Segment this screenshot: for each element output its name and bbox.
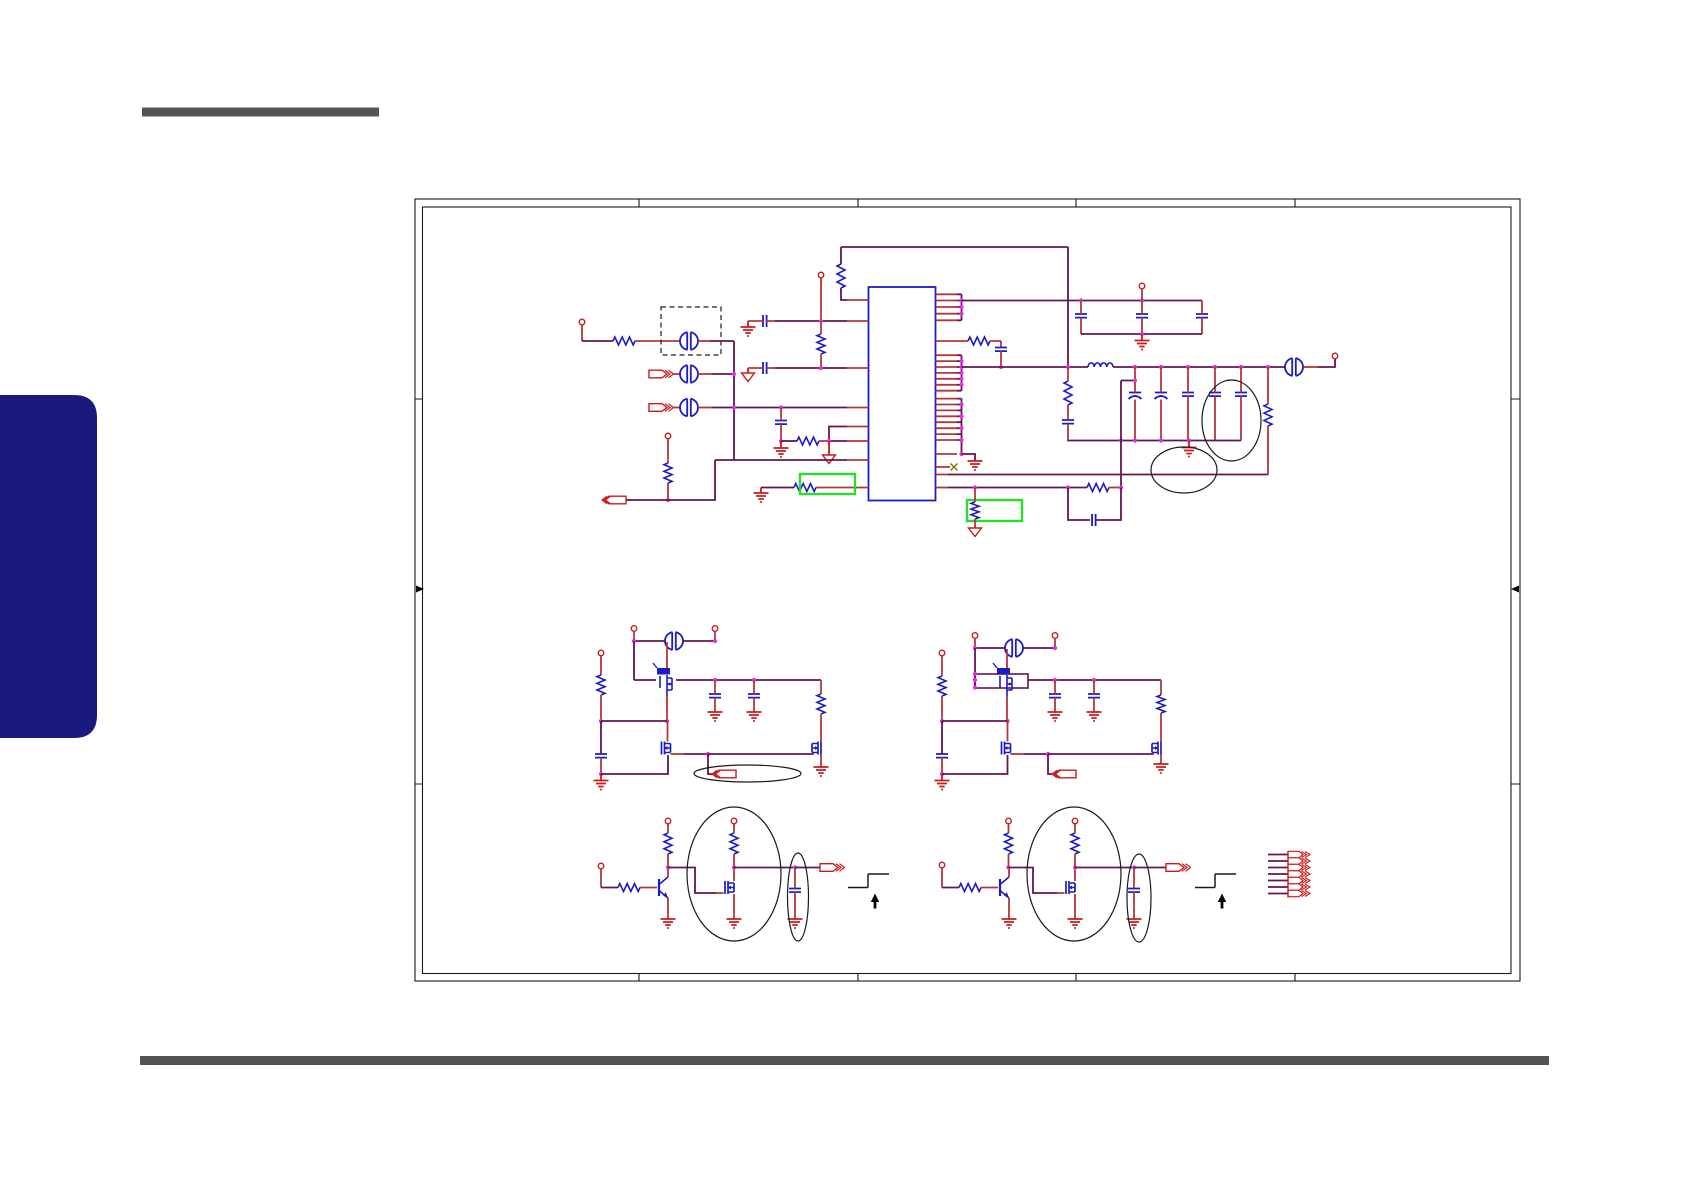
- junction 634-641: [632, 639, 636, 643]
- terminal B2b: [1052, 633, 1058, 639]
- junction 1068-487: [1066, 485, 1070, 489]
- wire net y474: [948, 474, 1268, 476]
- wire B2a drop: [974, 638, 976, 648]
- side tab: [0, 395, 97, 738]
- wire Q1 drain: [666, 642, 668, 668]
- wire R21 leads: [1074, 824, 1076, 868]
- wire D1 base b: [640, 887, 657, 889]
- capacitor C4: [1075, 314, 1087, 318]
- wire D1 gate link: [668, 868, 716, 894]
- wire B1 top b: [684, 640, 716, 642]
- wire net y487: [948, 487, 1087, 489]
- capacitor C22: [1128, 889, 1140, 893]
- wire B1 right: [820, 680, 822, 694]
- pin stub y467: [936, 466, 951, 468]
- wire Q6 gate: [1152, 753, 1154, 755]
- wire C22 lead: [1133, 892, 1135, 919]
- ellipse mark E6: [1202, 380, 1261, 461]
- junction 667-721: [665, 719, 669, 723]
- wire Q3 source: [820, 755, 822, 768]
- wire Q5 out: [1011, 753, 1025, 755]
- capacitor C2: [763, 362, 767, 374]
- wire Q9 emitter: [1008, 898, 1010, 919]
- wire B2 right: [1160, 680, 1162, 695]
- ellipse mark E4: [1027, 807, 1121, 941]
- wire D2 out: [1075, 867, 1134, 869]
- U1 right pin group2 bus: [957, 355, 962, 391]
- connector SW2: [1054, 770, 1076, 778]
- connector stack chevrons: [1302, 852, 1311, 897]
- wire C9 leads: [1160, 367, 1162, 441]
- wire cap bottom row: [1081, 333, 1202, 335]
- ground G17: [788, 919, 803, 928]
- resistor R2: [817, 334, 825, 354]
- wire B2 top b: [1024, 647, 1056, 649]
- terminal VDD: [1139, 283, 1145, 289]
- resistor R14: [938, 676, 946, 696]
- junction 781-407: [779, 405, 783, 409]
- connector SW1: [714, 770, 736, 778]
- resistor R15: [1157, 695, 1165, 713]
- wire B1a drop: [633, 631, 635, 641]
- U1 right pin group3 bus: [957, 399, 962, 454]
- wire Q8 drain: [733, 868, 735, 882]
- wire vert x734: [733, 341, 735, 460]
- U1 right pin group1 bus: [957, 294, 962, 320]
- footer bar: [140, 1056, 1549, 1065]
- resistor R13: [817, 694, 825, 714]
- ground G10: [814, 767, 829, 776]
- wire cap bottom row2: [1067, 440, 1241, 442]
- U1 right pin group2 stubs: [936, 355, 958, 391]
- wire B2 bottom: [942, 755, 1008, 774]
- junction 1075-867: [1073, 865, 1077, 869]
- mosfet Q10: [1066, 881, 1069, 894]
- junction 1008-867: [1006, 865, 1010, 869]
- wire D2a drop: [941, 868, 943, 888]
- power arrow P1: [742, 373, 755, 382]
- junction 1081-300: [1079, 298, 1083, 302]
- junction 781-441: [779, 439, 783, 443]
- wire gnd pin: [962, 454, 976, 461]
- transistor Q9: [999, 879, 1001, 896]
- wire row1 a: [582, 340, 613, 342]
- wire R7 out: [990, 341, 1001, 347]
- U1 right pin group3 stubs: [936, 399, 958, 440]
- terminal B1a: [631, 626, 637, 632]
- wire C19 leads: [1054, 680, 1056, 712]
- junction 708-754: [706, 752, 710, 756]
- pin stub y341: [936, 340, 969, 342]
- wire row3 a: [674, 407, 681, 409]
- wire G4 stem: [1141, 334, 1143, 341]
- wire D2 gate link: [1009, 868, 1058, 894]
- wire C16 leads: [714, 680, 716, 712]
- wire Q4 source: [1006, 696, 1008, 721]
- resistor R8: [1064, 381, 1072, 405]
- capacitor C12: [1235, 393, 1247, 397]
- terminal B1b: [712, 626, 718, 632]
- wire vert x1068: [1067, 247, 1069, 367]
- wire B1 mid: [601, 720, 667, 722]
- terminal J1: [579, 319, 585, 325]
- wire C21 lead: [794, 892, 796, 919]
- wire G11 stem: [941, 774, 943, 781]
- capacitor C3: [775, 421, 787, 425]
- pin stub y454: [936, 453, 958, 455]
- terminal B2a: [972, 633, 978, 639]
- wire B2b drop: [1054, 638, 1056, 648]
- junction 754-680: [752, 678, 756, 682]
- resistor R9: [1264, 404, 1272, 426]
- mosfet Q8: [725, 881, 728, 894]
- wire Q2 drain: [667, 721, 669, 742]
- wire B2 rail: [1028, 679, 1161, 681]
- wire C18 lead: [941, 758, 943, 774]
- wire D1 cap drop: [794, 868, 796, 889]
- wire B2c drop: [941, 656, 943, 676]
- capacitor C19: [1049, 694, 1061, 698]
- resistor R17: [664, 833, 672, 854]
- ellipse mark E1: [694, 765, 801, 782]
- junction 942-721: [940, 719, 944, 723]
- wire R12 lead: [600, 695, 602, 721]
- terminal D1b: [665, 818, 671, 824]
- wire row4 a: [781, 440, 797, 442]
- ground G15: [661, 919, 676, 928]
- resistor R21: [1071, 833, 1079, 854]
- filter FB1: [680, 332, 698, 350]
- wire Q7 emitter: [667, 898, 669, 919]
- wire B1 bottom: [601, 755, 668, 774]
- wire J2 drop: [667, 439, 669, 463]
- terminal VCC1: [818, 272, 824, 278]
- wire D2 cap drop: [1133, 868, 1135, 889]
- wire D2 base a: [942, 887, 959, 889]
- ground G19: [1068, 919, 1083, 928]
- junction 795-867: [793, 865, 797, 869]
- junction 942-774: [940, 772, 944, 776]
- wire R14 lead: [941, 696, 943, 721]
- highlight box H1: [800, 474, 855, 494]
- wire C3 leads: [780, 408, 782, 442]
- wire C11 leads: [1214, 367, 1216, 441]
- junction 668-500: [666, 498, 670, 502]
- connector IN2: [649, 370, 667, 378]
- terminal D2b: [1006, 818, 1012, 824]
- terminal VOUT: [1332, 353, 1338, 359]
- wire T-C drop: [820, 278, 822, 321]
- U1 right pin group1 stubs: [936, 294, 958, 320]
- capacitor C13: [1062, 420, 1074, 424]
- junction 1121-487: [1119, 485, 1123, 489]
- junction stack: [973, 672, 977, 676]
- junction 1094-680: [1092, 678, 1096, 682]
- wire Q7 collector: [667, 868, 669, 878]
- wire Q3 gate: [812, 753, 814, 755]
- terminal D1c: [731, 818, 737, 824]
- wire B1b drop: [714, 631, 716, 641]
- wire top loop: [841, 246, 1068, 248]
- no-connect X1: [951, 464, 958, 471]
- junction 1142-334: [1140, 332, 1144, 336]
- wire RC loop: [1068, 488, 1121, 521]
- wire R11 leads: [974, 488, 976, 529]
- terminal D1a: [598, 863, 604, 869]
- junction 821-321: [819, 319, 823, 323]
- connector stack bodies: [1288, 851, 1303, 896]
- junction 1055-648: [1053, 646, 1057, 650]
- wire B1 top: [634, 640, 665, 642]
- capacitor C5: [1136, 314, 1148, 318]
- wire SW2 tap: [1048, 754, 1052, 774]
- wire R1 leads: [841, 247, 847, 300]
- IC U1: [869, 287, 936, 501]
- wire gb1 a: [761, 487, 794, 489]
- pin stub U1 left y300: [847, 299, 869, 301]
- ground G3: [754, 493, 769, 502]
- wire B1 left vert: [633, 641, 635, 680]
- wire R8 leads: [1067, 367, 1069, 419]
- terminal J2: [665, 433, 671, 439]
- resistor R10: [1087, 484, 1109, 492]
- terminal B1c: [598, 650, 604, 656]
- wire B1 rail: [634, 679, 656, 681]
- connector stack bus: [1287, 851, 1289, 898]
- junction 829-441: [827, 439, 831, 443]
- junction 821-368: [819, 366, 823, 370]
- wire R10 out: [1109, 487, 1121, 489]
- junction 1001-367: [999, 365, 1003, 369]
- ground G1: [741, 327, 756, 336]
- wire Q5 drain: [1007, 721, 1009, 742]
- wire row4 b: [819, 440, 829, 442]
- mosfet Q6: [1158, 742, 1161, 755]
- wire C12 leads: [1240, 367, 1242, 441]
- wire loop box: [975, 674, 1028, 688]
- wire net y300: [962, 300, 1203, 302]
- junction 975-648: [973, 646, 977, 650]
- wire P1 stem: [747, 368, 749, 373]
- connector stack wires: [1268, 855, 1288, 894]
- resistor R12: [597, 675, 605, 695]
- ground G9: [747, 712, 762, 721]
- wire D1a drop: [600, 869, 602, 888]
- inductor L1: [1088, 363, 1113, 367]
- connector EN: [604, 496, 626, 504]
- capacitor C7: [995, 348, 1007, 352]
- wire row2 b: [698, 373, 712, 375]
- ellipse mark E7: [1151, 447, 1217, 493]
- wire R2 leads: [820, 321, 822, 368]
- wire SW2 run: [1048, 753, 1154, 755]
- capacitor C10: [1182, 393, 1194, 397]
- wire P2 stem: [828, 441, 830, 455]
- wire R13 lead: [820, 714, 822, 742]
- mosfet Q1: [657, 668, 670, 675]
- border zone ticks: [415, 199, 1520, 981]
- wire Q1 source: [666, 696, 668, 721]
- junction 601-721: [599, 719, 603, 723]
- wire Q8 source: [733, 894, 735, 919]
- filter FB6: [1005, 639, 1023, 657]
- filter FB3: [680, 399, 698, 417]
- pin stub y487: [936, 487, 949, 489]
- junction 975-487: [973, 485, 977, 489]
- wire R15 lead: [1160, 713, 1162, 742]
- ground G8: [708, 712, 723, 721]
- wire SW rail b: [1113, 366, 1285, 368]
- wire SW1 run: [708, 753, 814, 755]
- mosfet Q5: [1002, 742, 1005, 755]
- ground G6: [968, 461, 983, 470]
- border arrow left: [416, 586, 424, 593]
- wire B2 top: [975, 647, 1005, 649]
- ground G4: [1135, 341, 1150, 350]
- capacitor C11: [1209, 393, 1221, 397]
- ground G14: [1154, 764, 1169, 773]
- resistor R19: [959, 884, 981, 892]
- wire R9 leads: [1267, 367, 1269, 404]
- wire C10 leads: [1187, 367, 1189, 441]
- wire D1 base a: [601, 887, 618, 889]
- resistor R7: [968, 337, 990, 345]
- capacitor C14: [1092, 514, 1096, 526]
- junction 715-680: [713, 678, 717, 682]
- wire B2 cap drop: [941, 721, 943, 754]
- junction 1007-721: [1005, 719, 1009, 723]
- junctions group3: [959, 402, 963, 406]
- wire sense vert: [1121, 381, 1135, 488]
- wire G5 stem: [1188, 441, 1190, 448]
- junction 601-774: [599, 772, 603, 776]
- junction 1135-380: [1133, 378, 1137, 382]
- wire VDD drop: [1141, 289, 1143, 301]
- wire C15 lead: [600, 758, 602, 774]
- wire B1 cap drop: [600, 721, 602, 754]
- wire Q6 source: [1160, 755, 1162, 765]
- resistor R5: [664, 463, 672, 483]
- wire G7 stem: [600, 774, 602, 781]
- sheet outer border: [415, 199, 1520, 981]
- wire G3 stem: [760, 488, 762, 494]
- junctions SW rail: [1066, 365, 1070, 369]
- capacitor C16: [709, 694, 721, 698]
- wire C20 leads: [1093, 680, 1095, 712]
- wire Q10 drain: [1074, 868, 1076, 882]
- wire EN to IC: [668, 460, 715, 500]
- wire B2 left vert: [974, 648, 976, 688]
- wire C7 lead: [1000, 351, 1002, 367]
- wire C17 leads: [753, 680, 755, 712]
- wire SW rail a: [962, 366, 1089, 368]
- ground G7: [594, 781, 609, 790]
- filter FB4: [1285, 358, 1303, 376]
- mosfet Q4: [997, 668, 1010, 675]
- wire row1 c: [698, 340, 710, 342]
- junctions group1: [959, 298, 963, 302]
- resistor R6: [794, 484, 816, 492]
- wire B1c drop: [600, 656, 602, 675]
- resistor R3: [613, 337, 635, 345]
- power arrow P3: [969, 528, 982, 537]
- ground G18: [1002, 919, 1017, 928]
- capacitor C20: [1088, 694, 1100, 698]
- wire C2 row: [748, 367, 775, 369]
- wire R18 leads: [733, 824, 735, 868]
- terminal B2c: [939, 650, 945, 656]
- ground G2: [774, 448, 789, 457]
- junction 961-454: [959, 452, 963, 456]
- resistor R16: [618, 884, 640, 892]
- wire Q4 drain: [1006, 649, 1008, 668]
- wire R20 leads: [1008, 824, 1010, 868]
- resistor R4: [797, 437, 819, 445]
- mosfet Q2: [662, 742, 665, 755]
- mosfet Q3: [818, 742, 821, 755]
- filter FB2: [680, 365, 698, 383]
- power arrow P2: [823, 455, 836, 464]
- wire B2 mid: [942, 720, 1008, 722]
- resistor R18: [730, 833, 738, 854]
- connector OUT2: [1166, 864, 1184, 872]
- junction 1134-867: [1132, 865, 1136, 869]
- dashed box FB1: [661, 307, 721, 355]
- border arrow right: [1511, 586, 1519, 593]
- resistor R1: [837, 264, 845, 288]
- capacitor C18: [936, 754, 948, 758]
- terminal D2c: [1072, 818, 1078, 824]
- capacitor C1: [763, 315, 767, 327]
- capacitor C15: [595, 754, 607, 758]
- edge symbol S2: [1195, 874, 1236, 888]
- ellipse mark E2: [687, 807, 781, 941]
- junction 1048-754: [1046, 752, 1050, 756]
- wire J1 drop: [581, 325, 583, 341]
- wire G1 stem: [747, 321, 749, 327]
- wire C13 lead: [1067, 424, 1069, 441]
- header bar: [142, 108, 379, 117]
- connector OUT1: [820, 864, 838, 872]
- wire D1 out: [734, 867, 795, 869]
- transistor Q7: [658, 879, 660, 896]
- wire row2 a: [674, 373, 681, 375]
- wire gb1 b: [816, 487, 869, 489]
- filter FB5: [665, 632, 683, 650]
- wire G2 stem: [780, 441, 782, 448]
- capacitor C6: [1196, 314, 1208, 318]
- wire D2 out b: [1134, 867, 1166, 869]
- wire row1 b: [635, 340, 680, 342]
- junction 734-867: [732, 865, 736, 869]
- junction 1055-680: [1053, 678, 1057, 682]
- wire C4 leads: [1080, 301, 1082, 335]
- wire R17 leads: [667, 824, 669, 868]
- wire EN run: [626, 499, 668, 501]
- connector IN3: [649, 404, 667, 412]
- wire Q9 collector: [1008, 868, 1010, 878]
- ground G13: [1087, 712, 1102, 721]
- highlight box H2: [967, 500, 1022, 521]
- wire D1 out b: [795, 867, 820, 869]
- junction 715-641: [713, 639, 717, 643]
- wire FB4 out: [1304, 366, 1319, 368]
- resistor R11: [971, 502, 979, 519]
- wire SW1 tap: [708, 754, 712, 774]
- junction 734-374: [732, 372, 736, 376]
- capacitor C9: [1155, 392, 1167, 394]
- ground G20: [1127, 919, 1142, 928]
